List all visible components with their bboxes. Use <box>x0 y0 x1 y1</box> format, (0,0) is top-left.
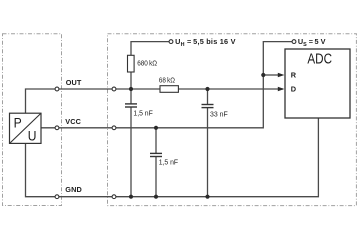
arrowhead into ADC R input <box>278 73 285 77</box>
svg-text:US = 5 V: US = 5 V <box>298 37 326 48</box>
resistor 68 kOhm body <box>160 86 178 93</box>
wire GND line sensor to ADC ground leg <box>26 118 319 197</box>
wire VCC line sensor to supply riser <box>41 42 292 128</box>
svg-text:U: U <box>28 129 37 144</box>
wire OUT line sensor to ADC D input <box>26 89 284 113</box>
terminal US supply <box>292 40 296 44</box>
resistor 680 kOhm body <box>128 55 135 72</box>
arrowhead into ADC D input <box>278 87 285 91</box>
junction dot GND / C3 <box>154 195 158 199</box>
svg-text:P: P <box>14 115 22 130</box>
svg-text:VCC: VCC <box>65 117 81 126</box>
capacitor C1 value label 1,5 nF <box>133 109 153 118</box>
svg-text:33 nF: 33 nF <box>210 109 228 118</box>
svg-text:ADC: ADC <box>307 52 332 68</box>
net label VCC <box>65 117 81 126</box>
svg-text:GND: GND <box>65 185 82 194</box>
ADC pin label D <box>291 85 296 94</box>
ADC box <box>285 49 350 118</box>
sensor label U <box>28 129 37 144</box>
svg-text:D: D <box>291 85 296 94</box>
capacitor C3 1,5 nF leads and plates <box>150 128 162 197</box>
sensor dashed enclosure box <box>3 34 62 206</box>
sensor box P/U <box>10 113 42 143</box>
junction dot OUT / 680k / C1 <box>129 87 133 91</box>
terminal OUT circuit side <box>112 87 116 91</box>
svg-text:1,5 nF: 1,5 nF <box>159 157 179 166</box>
svg-text:OUT: OUT <box>66 78 82 87</box>
capacitor C1 1,5 nF leads and plates <box>125 89 137 197</box>
terminal VCC sensor side <box>55 126 59 130</box>
terminal UH supply <box>169 40 173 44</box>
sensor label P <box>14 115 22 130</box>
svg-text:UH = 5,5 bis 16 V: UH = 5,5 bis 16 V <box>175 37 236 48</box>
junction dot riser / R branch <box>261 73 265 77</box>
net label OUT <box>66 78 82 87</box>
resistor 68 kOhm value label <box>159 75 176 84</box>
svg-text:1,5 nF: 1,5 nF <box>133 109 153 118</box>
ADC label <box>307 52 332 68</box>
svg-text:68 kΩ: 68 kΩ <box>159 75 176 84</box>
junction dot GND / C2 <box>205 195 209 199</box>
resistor 680 kOhm value label <box>137 59 157 68</box>
supply label US = 5 V <box>298 37 326 48</box>
terminal OUT sensor side <box>55 87 59 91</box>
capacitor C2 value label 33 nF <box>210 109 228 118</box>
wire UH supply branch to 680k resistor top <box>131 42 169 89</box>
terminal GND circuit side <box>112 195 116 199</box>
terminal GND sensor side <box>55 195 59 199</box>
svg-text:R: R <box>291 70 297 79</box>
junction dot VCC / C3 <box>154 126 158 130</box>
net label GND <box>65 185 82 194</box>
wire R input branch from supply riser <box>263 74 279 76</box>
terminal VCC circuit side <box>112 126 116 130</box>
evaluation circuit dashed enclosure box <box>108 34 357 206</box>
capacitor C2 33 nF leads and plates <box>202 89 214 197</box>
junction dot OUT / C2 <box>205 87 209 91</box>
capacitor C3 value label 1,5 nF <box>159 157 179 166</box>
junction dot GND / C1 <box>129 195 133 199</box>
svg-text:680 kΩ: 680 kΩ <box>137 59 157 68</box>
supply label UH = 5,5 bis 16 V <box>175 37 236 48</box>
ADC pin label R <box>291 70 297 79</box>
